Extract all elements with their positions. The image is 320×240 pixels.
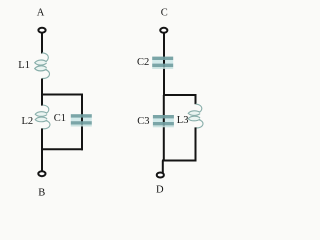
wire C1 branch [81, 94, 83, 151]
wire L1 to top junction [41, 79, 43, 96]
wire bottom junction horizontal [41, 148, 83, 150]
terminal A [38, 28, 45, 33]
capacitor C3 plates [153, 115, 174, 127]
svg-text:L3: L3 [177, 115, 189, 126]
wire top junction to L2 [41, 95, 43, 106]
wire bottom junction horizontal right [162, 160, 197, 162]
svg-text:C3: C3 [137, 116, 149, 127]
wire top junction to C3 to bottom junction [163, 95, 165, 162]
wire bottom junction to B [41, 149, 43, 172]
inductor L1 [35, 53, 50, 79]
svg-text:D: D [156, 184, 164, 195]
terminal D [157, 173, 164, 178]
wire top junction horizontal [41, 94, 83, 96]
svg-text:L1: L1 [18, 60, 30, 71]
wire C to C2 [163, 31, 165, 58]
svg-text:C: C [161, 7, 168, 18]
wire bottom junction to D [162, 161, 164, 174]
terminal C [160, 28, 167, 33]
wire C2 to top junction [163, 55, 165, 96]
wire L3 branch upper [195, 94, 197, 104]
svg-text:C1: C1 [54, 113, 66, 124]
capacitor C1 gap [71, 118, 92, 122]
wire L3 branch lower [195, 127, 197, 161]
capacitor C1 plates [71, 114, 92, 126]
svg-text:B: B [38, 187, 45, 198]
capacitor C2 plates [152, 57, 173, 69]
wire A to L1 [41, 31, 43, 54]
terminal B [38, 171, 45, 176]
svg-text:A: A [37, 7, 45, 18]
wire L2 to bottom junction [41, 128, 43, 150]
wire top junction horizontal right [163, 94, 197, 96]
inductor L2 [35, 105, 50, 129]
svg-text:C2: C2 [137, 57, 149, 68]
capacitor C2 gap [152, 60, 173, 64]
capacitor C3 gap [153, 118, 174, 122]
svg-text:L2: L2 [22, 116, 34, 127]
inductor L3 [188, 104, 203, 128]
